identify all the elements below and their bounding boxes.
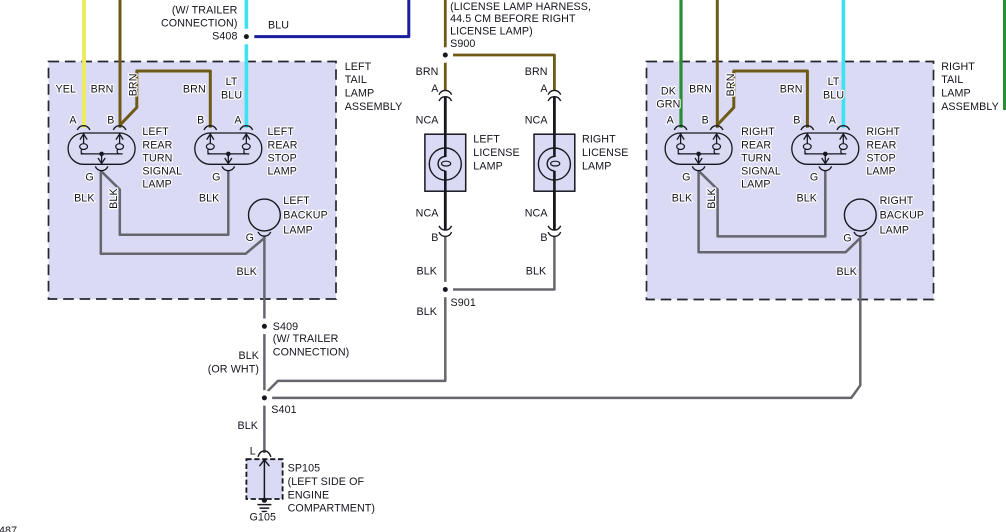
splice S409 — [257, 319, 273, 335]
svg-text:COMPARTMENT): COMPARTMENT) — [288, 503, 376, 515]
svg-text:STOP: STOP — [866, 152, 895, 164]
svg-text:TURN: TURN — [741, 152, 771, 164]
wire BLU from S408 to top edge — [254, 0, 408, 37]
right rear stop lamp — [792, 126, 901, 178]
svg-text:G: G — [843, 233, 851, 245]
svg-text:LEFT: LEFT — [345, 61, 372, 73]
svg-text:LEFT: LEFT — [283, 195, 310, 207]
svg-text:BLU: BLU — [268, 20, 289, 32]
svg-text:S409: S409 — [273, 321, 298, 333]
svg-text:BLK: BLK — [836, 266, 857, 278]
svg-text:(OR WHT): (OR WHT) — [208, 363, 259, 375]
svg-text:REAR: REAR — [866, 139, 896, 151]
svg-text:ASSEMBLY: ASSEMBLY — [941, 101, 999, 113]
svg-text:44.5 CM BEFORE RIGHT: 44.5 CM BEFORE RIGHT — [450, 13, 576, 25]
svg-text:BLK: BLK — [237, 420, 258, 432]
svg-text:NCA: NCA — [416, 207, 440, 219]
svg-text:G: G — [682, 171, 690, 183]
svg-text:G: G — [246, 232, 254, 244]
svg-text:(LICENSE LAMP HARNESS,: (LICENSE LAMP HARNESS, — [450, 1, 591, 13]
svg-text:LAMP: LAMP — [345, 88, 375, 100]
left rear turn signal lamp — [68, 126, 182, 191]
svg-text:LICENSE: LICENSE — [473, 147, 519, 159]
svg-text:ASSEMBLY: ASSEMBLY — [345, 101, 403, 113]
right backup lamp — [844, 195, 924, 236]
splice S900 — [438, 47, 454, 63]
wire DK GRN to right turn pin A — [679, 0, 682, 128]
svg-text:BLK: BLK — [526, 265, 547, 277]
svg-text:SP105: SP105 — [288, 463, 321, 475]
svg-text:G: G — [810, 171, 818, 183]
svg-text:BLK: BLK — [238, 350, 259, 362]
svg-text:REAR: REAR — [142, 139, 172, 151]
svg-text:A: A — [829, 115, 837, 127]
wire GRN at right edge — [1003, 0, 1006, 110]
svg-text:NCA: NCA — [416, 114, 440, 126]
svg-text:NCA: NCA — [525, 207, 549, 219]
svg-text:GRN: GRN — [656, 98, 680, 110]
svg-text:A: A — [540, 83, 548, 95]
svg-text:YEL: YEL — [55, 84, 76, 96]
svg-text:BRN: BRN — [416, 66, 439, 78]
wire BRN jog right turn B to right stop B — [717, 71, 807, 128]
svg-text:BLK: BLK — [236, 266, 257, 278]
svg-text:BRN: BRN — [525, 66, 548, 78]
svg-text:A: A — [234, 115, 242, 127]
svg-text:ENGINE: ENGINE — [288, 489, 330, 501]
svg-text:BLK: BLK — [199, 193, 220, 205]
wire NCA right license — [553, 97, 556, 230]
svg-text:A: A — [69, 115, 77, 127]
right license lamp — [534, 90, 628, 236]
svg-text:LAMP: LAMP — [473, 160, 503, 172]
wire BRN to left turn pin B — [119, 0, 122, 128]
svg-text:(W/ TRAILER: (W/ TRAILER — [273, 333, 339, 345]
svg-text:A: A — [667, 115, 675, 127]
svg-text:BLK: BLK — [74, 193, 95, 205]
svg-text:(LEFT SIDE OF: (LEFT SIDE OF — [288, 476, 365, 488]
svg-text:BLK: BLK — [672, 193, 693, 205]
splice S901 — [438, 282, 454, 298]
svg-text:G: G — [85, 171, 93, 183]
svg-text:LICENSE: LICENSE — [582, 147, 628, 159]
svg-text:B: B — [540, 232, 547, 244]
svg-text:LT: LT — [226, 76, 238, 88]
svg-text:(W/ TRAILER: (W/ TRAILER — [172, 5, 238, 17]
svg-text:LEFT: LEFT — [142, 126, 169, 138]
svg-text:LAMP: LAMP — [582, 160, 612, 172]
svg-text:B: B — [793, 115, 800, 127]
svg-text:LAMP: LAMP — [268, 165, 298, 177]
svg-text:BACKUP: BACKUP — [283, 210, 328, 222]
svg-text:BLK: BLK — [796, 193, 817, 205]
wire BLK right turn G across to right backup G — [699, 171, 861, 253]
wire BLK left turn G to left stop G — [101, 171, 229, 235]
svg-text:LAMP: LAMP — [941, 88, 971, 100]
svg-text:BLK: BLK — [416, 306, 437, 318]
svg-text:SIGNAL: SIGNAL — [142, 165, 182, 177]
svg-text:BLU: BLU — [823, 89, 844, 101]
svg-text:RIGHT: RIGHT — [741, 126, 775, 138]
svg-text:G105: G105 — [250, 512, 277, 524]
svg-text:L: L — [250, 445, 256, 457]
svg-text:CONNECTION): CONNECTION) — [161, 17, 238, 29]
splice S401 — [257, 390, 273, 406]
svg-text:SIGNAL: SIGNAL — [741, 165, 781, 177]
svg-text:S900: S900 — [450, 38, 475, 50]
wire BLK S401 across to right backup G — [264, 236, 860, 398]
wire BRN through S900 to left license pin A — [444, 0, 447, 90]
svg-text:BLK: BLK — [706, 188, 718, 209]
svg-text:RIGHT: RIGHT — [941, 61, 975, 73]
svg-text:LAMP: LAMP — [283, 224, 313, 236]
svg-text:S401: S401 — [271, 404, 296, 416]
splice pack SP105 — [246, 459, 282, 503]
wire BRN jog left turn B to left stop B — [120, 71, 210, 128]
wire BLK left turn G across to left backup G — [101, 171, 265, 254]
svg-text:BRN: BRN — [725, 73, 737, 96]
svg-text:A: A — [431, 83, 439, 95]
svg-text:STOP: STOP — [268, 152, 297, 164]
svg-text:B: B — [702, 115, 709, 127]
svg-text:BRN: BRN — [127, 73, 139, 96]
wire BLK left backup G down through S409 S401 to L — [263, 236, 266, 453]
svg-text:BRN: BRN — [183, 84, 206, 96]
svg-text:BRN: BRN — [689, 84, 712, 96]
svg-text:LT: LT — [828, 76, 840, 88]
svg-text:REAR: REAR — [268, 139, 298, 151]
svg-text:DK: DK — [661, 86, 677, 98]
svg-text:B: B — [431, 232, 438, 244]
left backup lamp — [249, 195, 328, 236]
svg-text:BLU: BLU — [221, 89, 242, 101]
right rear turn signal lamp — [665, 126, 781, 191]
left tail lamp assembly box — [49, 62, 337, 300]
svg-text:NCA: NCA — [525, 114, 549, 126]
svg-text:RIGHT: RIGHT — [582, 134, 616, 146]
wire BLK right turn G to right stop G — [699, 171, 826, 237]
svg-text:LAMP: LAMP — [741, 178, 771, 190]
wire BLK S901 to right license B — [445, 236, 554, 289]
svg-text:G: G — [212, 171, 220, 183]
ground G105 — [257, 505, 271, 512]
svg-text:BLK: BLK — [416, 265, 437, 277]
svg-text:BRN: BRN — [780, 84, 803, 96]
svg-text:BLK: BLK — [108, 188, 120, 209]
svg-text:TURN: TURN — [142, 152, 172, 164]
splice S408 — [239, 29, 255, 45]
svg-text:RIGHT: RIGHT — [866, 126, 900, 138]
wire LT BLU to right stop pin A — [842, 0, 846, 128]
wire YEL to left turn pin A — [82, 0, 86, 128]
svg-text:TAIL: TAIL — [941, 74, 963, 86]
wire LT BLU through S408 to left stop pin A — [245, 0, 249, 128]
wire BLK left license B via S901 to S401 — [264, 236, 445, 398]
svg-text:BACKUP: BACKUP — [880, 210, 925, 222]
svg-text:BRN: BRN — [91, 84, 114, 96]
svg-text:REAR: REAR — [741, 139, 771, 151]
connector L at SP105 — [258, 451, 271, 457]
svg-text:TAIL: TAIL — [345, 74, 367, 86]
svg-text:B: B — [197, 115, 204, 127]
svg-text:LEFT: LEFT — [473, 134, 500, 146]
svg-text:B: B — [107, 115, 114, 127]
svg-text:LAMP: LAMP — [142, 178, 172, 190]
wire BRN to right turn pin B — [716, 0, 719, 128]
svg-text:487: 487 — [0, 525, 17, 532]
left rear stop lamp — [195, 126, 298, 178]
svg-text:RIGHT: RIGHT — [880, 195, 914, 207]
svg-text:LEFT: LEFT — [268, 126, 295, 138]
svg-text:S901: S901 — [451, 297, 476, 309]
svg-text:LAMP: LAMP — [866, 165, 896, 177]
svg-text:CONNECTION): CONNECTION) — [273, 346, 350, 358]
svg-text:LAMP: LAMP — [880, 224, 910, 236]
wire BRN S900 to right license pin A — [445, 55, 554, 90]
left license lamp — [425, 90, 520, 236]
right tail lamp assembly box — [647, 62, 934, 300]
svg-text:LICENSE LAMP): LICENSE LAMP) — [450, 26, 533, 38]
wire NCA left license — [444, 97, 447, 230]
svg-text:S408: S408 — [212, 30, 237, 42]
